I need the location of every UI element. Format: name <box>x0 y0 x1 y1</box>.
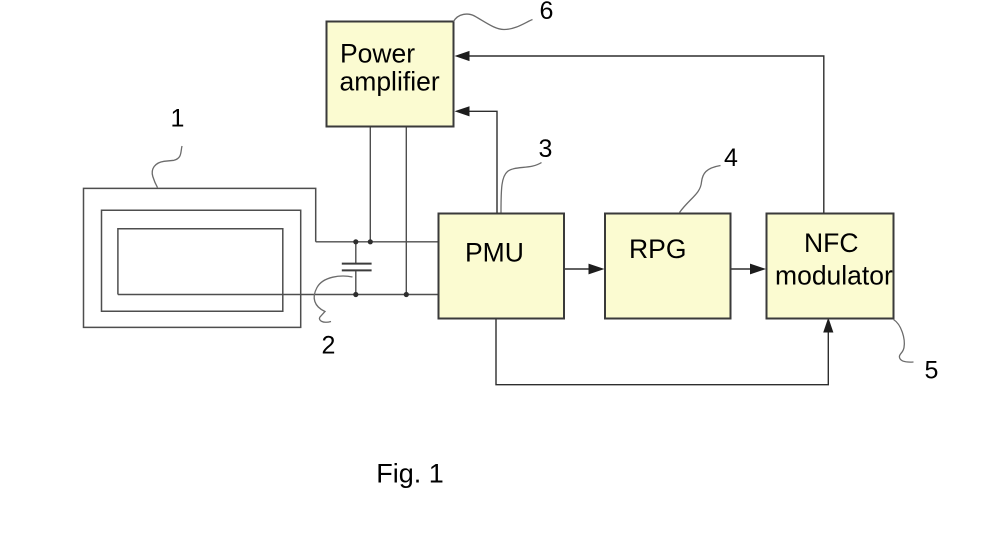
svg-text:modulator: modulator <box>775 261 893 291</box>
leader line for label 6 <box>454 14 533 29</box>
leader line for label 5 <box>894 320 914 363</box>
label 1 (antenna coil) <box>171 105 185 133</box>
arrow: RPG to NFC modulator <box>731 264 767 275</box>
svg-text:1: 1 <box>171 105 185 133</box>
svg-text:4: 4 <box>724 144 738 172</box>
label 2 (capacitor) <box>322 332 336 360</box>
svg-text:Fig. 1: Fig. 1 <box>376 459 444 489</box>
label 5 (NFC modulator) <box>925 357 939 385</box>
antenna coil L1 (3-turn rectangular spiral) <box>84 188 316 327</box>
leader line for label 3 <box>501 163 542 213</box>
svg-text:5: 5 <box>925 357 939 385</box>
wire: power amplifier output 1 (vertical to top node) <box>369 127 371 242</box>
block: RPG (label 4) <box>605 214 731 319</box>
svg-text:6: 6 <box>540 0 554 25</box>
wire: NFC modulator to power amplifier (feedback line with arrow) <box>455 51 824 214</box>
svg-text:RPG: RPG <box>629 234 686 264</box>
svg-text:3: 3 <box>539 135 553 163</box>
block: Power amplifier (label 6) <box>327 22 454 127</box>
wire: PMU bottom to NFC modulator bottom (with up arrow) <box>496 318 833 385</box>
arrow: PMU to RPG <box>564 264 605 275</box>
svg-text:PMU: PMU <box>465 238 524 268</box>
leader line for label 2 <box>314 276 352 322</box>
wire: power amplifier output 2 (vertical to bottom node) <box>405 127 407 295</box>
wire: PMU to power amplifier (control line with arrow) <box>455 106 498 213</box>
svg-text:NFC: NFC <box>804 228 858 258</box>
block: NFC modulator (label 5) <box>767 214 894 319</box>
leader line for label 4 <box>680 166 721 213</box>
label 3 (PMU) <box>539 135 553 163</box>
svg-text:2: 2 <box>322 332 336 360</box>
wire: coil inner end / bottom node to PMU <box>118 294 439 296</box>
label 6 (Power amplifier) <box>540 0 554 25</box>
leader line for label 1 <box>152 146 182 188</box>
junction dot: node B (cap bottom / bottom node) <box>353 292 358 297</box>
caption: Fig. 1 <box>376 459 444 489</box>
junction dot: node B (PA output 2 / bottom node) <box>404 292 409 297</box>
capacitor C (tuning capacitor, label 2) <box>342 242 372 295</box>
label 4 (RPG) <box>724 144 738 172</box>
junction dot: node A (cap top / top node) <box>353 239 358 244</box>
block: PMU (label 3) <box>439 214 565 319</box>
svg-text:amplifier: amplifier <box>340 67 440 97</box>
junction dot: node A (PA output 1 / top node) <box>368 239 373 244</box>
svg-text:Power: Power <box>340 39 415 69</box>
wire: coil outer end to top node <box>316 241 439 243</box>
